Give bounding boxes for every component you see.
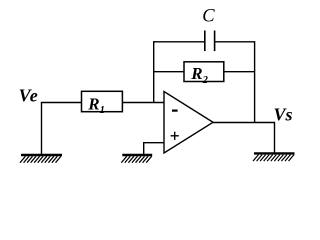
ground (right) bbox=[253, 153, 295, 161]
wire: Ve to R1 bbox=[41, 102, 82, 104]
wire: left feedback vertical (node A down to inverting input) bbox=[153, 41, 155, 102]
capacitor C plates bbox=[205, 31, 215, 52]
wire: op-amp output bbox=[213, 122, 275, 124]
resistor R1 body bbox=[82, 91, 123, 111]
svg-text:Vs: Vs bbox=[274, 105, 293, 125]
wire: R2 right lead bbox=[224, 71, 255, 73]
op-amp minus sign bbox=[172, 109, 178, 111]
resistor R2 body bbox=[184, 62, 224, 82]
wire: non-inverting input to ground stub bbox=[144, 143, 164, 155]
ground (left) bbox=[20, 155, 62, 163]
op-amp plus sign bbox=[171, 132, 179, 140]
wire: right feedback vertical (down to output node) bbox=[254, 41, 256, 122]
svg-text:Ve: Ve bbox=[19, 86, 39, 106]
wire: R1 to op-amp inverting input bbox=[122, 102, 164, 104]
svg-text:C: C bbox=[202, 6, 215, 26]
op-amp U1 triangle bbox=[164, 92, 213, 154]
capacitor C top-right wire bbox=[215, 41, 255, 43]
wire: output node drop to ground bbox=[274, 122, 276, 154]
ground (middle) bbox=[121, 155, 152, 163]
capacitor C top-left wire bbox=[154, 41, 205, 43]
wire: R2 left lead bbox=[154, 71, 184, 73]
wire: Ve node drop to ground bbox=[41, 103, 43, 156]
